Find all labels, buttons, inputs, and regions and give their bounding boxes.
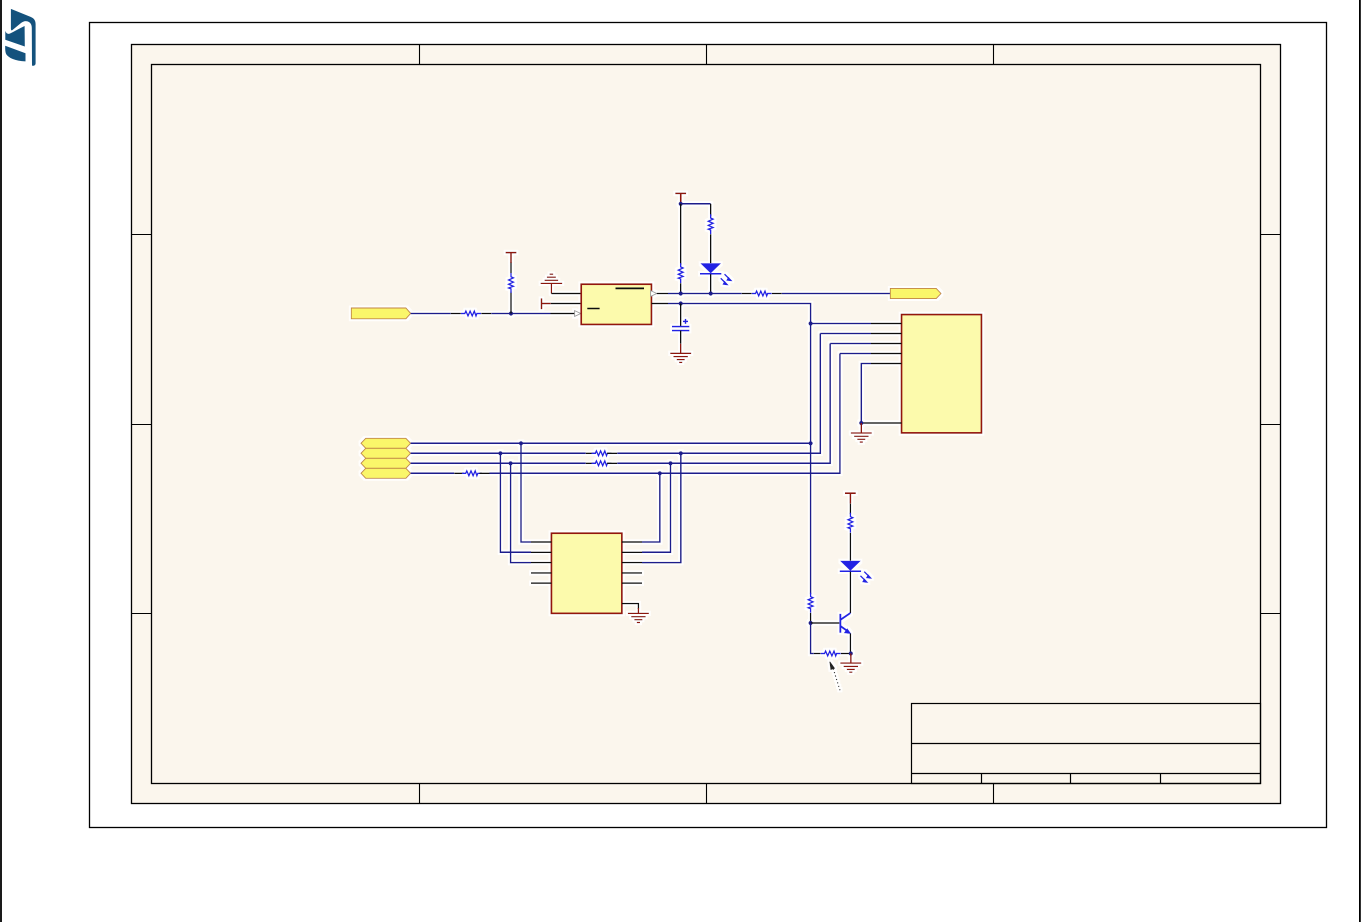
wire U3 pin1 [521,443,531,542]
node junction D1/VOUT [709,291,713,295]
port IN flag [351,308,410,319]
U1 pin 4 stub [652,303,669,305]
power bar VCC3 [845,493,856,503]
resistor R7 [592,461,612,466]
U2 pin stubs [861,324,901,424]
port VCC flag [890,288,941,298]
node junction row1/net [809,441,813,445]
U1 output pin stub [657,293,668,295]
port bus flag 3 [361,458,411,468]
ground G4 [851,433,872,442]
node junction row3/U3 pin3 [509,461,513,465]
power flag left of U1 pin 2 [542,298,551,309]
LED D2 arrows [860,572,870,582]
resistor R11 [821,651,841,656]
U1 pin 1 stub [551,293,581,295]
wire R9 to LED D2 [849,533,851,561]
LED D1 cathode lead [710,274,712,293]
resistor R4 [708,214,713,234]
ground G2 [670,353,691,362]
power bar VCC2 [675,193,686,203]
resistor R10 (base) [808,593,813,613]
title block [912,704,1261,784]
U1 input pin stub with arrow [551,313,576,315]
LED D1 arrows [721,274,731,284]
U1 internal overline [616,287,645,289]
wire row 4 [411,472,455,474]
annotation arrow [833,669,840,693]
node junction row1/U3 pin1 [519,441,523,445]
resistor R9 top lead [849,504,851,515]
wire U2 pin2 [820,333,871,335]
wire VCC2 down to R3 [680,204,682,265]
wire net VOUT [668,293,742,295]
wire U2 pin4 [840,353,871,355]
wire U3 pin3r [642,453,681,562]
port bus flag 4 [361,468,411,478]
U1 pin 2 stub [551,303,581,305]
IC U2 [902,315,982,433]
resistor R3 [678,263,683,283]
resistor R2 top lead [510,262,512,273]
wire junction up to R2 [510,292,512,314]
ground G5 [840,663,861,672]
resistor R5 leads [742,293,752,295]
wire row 3 [411,462,586,464]
Q1 emitter lead [849,634,851,654]
resistor R3 bottom lead [680,283,682,293]
node junction row2/U3 pin3r [679,451,683,455]
regulator U1 [581,284,651,324]
U1 internal pin-1 line [587,308,599,310]
wire U2 pin1 [811,323,871,325]
U1 output pin arrow [651,291,657,297]
resistor R9 [848,513,853,533]
resistor R11 leads [814,653,821,655]
wire net IN [411,313,451,315]
ground G3 [628,613,649,622]
port bus flag 1 [361,438,411,448]
port bus flag 2 [361,448,411,458]
capacitor C1 bottom lead [680,331,682,344]
wire U3 pin1r [642,473,660,542]
resistor R10 bottom lead [810,613,812,623]
wire U2 pin5 to ground [861,364,871,424]
node junction emitter [849,651,853,655]
transistor Q1 [840,613,850,633]
node junction cap C1 [679,301,683,305]
wire row 2 [411,452,586,454]
node junction R3/VOUT [679,291,683,295]
U3 right pin stubs [622,542,642,583]
wire VCC2 to R4 [710,204,712,216]
LED D2 [840,561,861,572]
wire base node [811,622,840,624]
resistor R1 leads [451,313,461,315]
LED D2 cathode to Q1 collector [849,572,851,613]
node junction Q1 base [809,621,813,625]
wire R5 to port VCC [782,293,891,295]
capacitor C1 top lead [680,304,682,327]
U3 ground pin [622,604,639,609]
wire U3 pin2 [500,453,531,552]
wire R4 to LED D1 [710,234,712,263]
capacitor C1 [672,319,689,331]
IC U3 [551,533,622,613]
wire R1 to U1 input [491,313,550,315]
ST logo [5,9,35,66]
resistor R6 [592,451,612,456]
node junction U2 gnd [859,421,863,425]
node junction row3/U3 pin2r [668,461,672,465]
resistor R8 [462,471,482,476]
wire U2 pin3 [830,343,871,345]
wire row 1 [411,442,811,444]
resistor R2 [509,273,514,293]
wire VCC2 node [681,203,711,205]
resistor R5 [752,291,772,296]
LED D1 [700,263,721,274]
wire U3 pin3 [511,463,531,562]
node junction U2 pin1 [809,321,813,325]
wire U3 pin2r [642,463,671,552]
node junction row4/U3 pin1r [658,471,662,475]
wire net U1 out2 [668,304,811,595]
node junction VCC2 [679,202,683,206]
node junction row2/U3 pin2 [498,451,502,455]
resistor R1 [461,311,481,316]
ground earth G1 (rotated) [541,274,563,293]
node junction at R2 branch [509,311,513,315]
power bar VCC1 [506,253,517,263]
U3 left pin stubs [531,542,551,583]
